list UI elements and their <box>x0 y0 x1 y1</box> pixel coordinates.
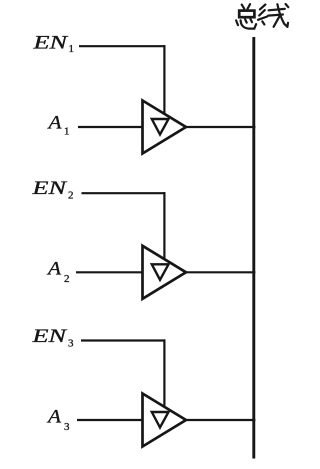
wire EN3 vertical to buffer 3 enable <box>163 339 165 407</box>
svg-text:2: 2 <box>68 190 74 202</box>
svg-text:A: A <box>46 113 62 134</box>
svg-text:1: 1 <box>69 43 75 55</box>
wire A2 input <box>76 271 144 273</box>
buffer 3 inner triangle <box>152 412 169 428</box>
tri-state buffer 3 <box>143 394 187 447</box>
svg-text:A: A <box>46 259 62 280</box>
wire buffer 2 output to bus <box>185 271 256 273</box>
svg-text:EN: EN <box>31 326 68 347</box>
node 总线 (bus label) <box>236 4 288 29</box>
wire EN2 vertical to buffer 2 enable <box>163 192 165 260</box>
wire A3 input <box>77 419 144 421</box>
wire buffer 3 output to bus <box>185 419 256 421</box>
tri-state buffer 1 <box>143 101 187 154</box>
svg-text:2: 2 <box>64 273 70 285</box>
svg-text:3: 3 <box>68 338 74 350</box>
wire EN3 horizontal <box>81 339 166 341</box>
svg-text:EN: EN <box>31 178 68 199</box>
wire buffer 1 output to bus <box>185 126 256 128</box>
svg-text:EN: EN <box>32 33 69 54</box>
buffer 2 inner triangle <box>152 264 169 280</box>
svg-text:3: 3 <box>64 421 70 433</box>
wire EN1 vertical to buffer 1 enable <box>163 45 165 114</box>
wire EN1 horizontal <box>79 45 166 47</box>
wire A1 input <box>78 126 144 128</box>
tri-state buffer 2 <box>143 246 187 299</box>
wire bus vertical <box>252 37 255 459</box>
buffer 1 inner triangle <box>152 119 169 135</box>
wire EN2 horizontal <box>82 192 166 194</box>
svg-text:1: 1 <box>64 126 70 138</box>
svg-text:A: A <box>46 406 62 427</box>
